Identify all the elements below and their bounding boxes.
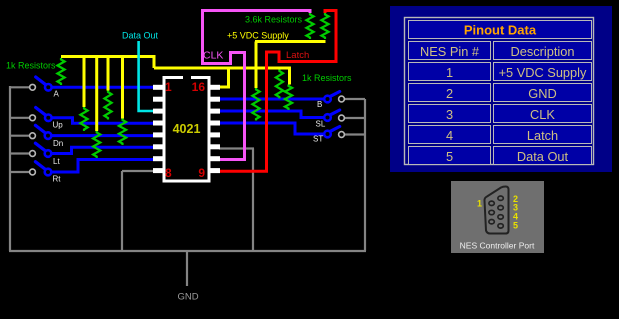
svg-text:NES Controller Port: NES Controller Port — [460, 241, 535, 251]
svg-text:B: B — [317, 100, 322, 109]
svg-text:Latch: Latch — [286, 50, 309, 61]
svg-text:NES Pin #: NES Pin # — [420, 44, 480, 59]
svg-text:Rt: Rt — [53, 175, 62, 184]
svg-text:3: 3 — [446, 107, 453, 122]
svg-text:Dn: Dn — [53, 139, 63, 148]
svg-text:ST: ST — [313, 135, 323, 144]
svg-text:Up: Up — [53, 121, 64, 130]
svg-text:8: 8 — [165, 166, 172, 180]
svg-text:3.6k Resistors: 3.6k Resistors — [245, 15, 303, 25]
svg-text:GND: GND — [178, 292, 199, 303]
svg-text:+5 VDC Supply: +5 VDC Supply — [227, 31, 289, 41]
svg-text:SL: SL — [316, 120, 326, 129]
svg-text:Data Out: Data Out — [517, 149, 569, 164]
svg-text:4: 4 — [446, 128, 453, 143]
svg-text:2: 2 — [446, 86, 453, 101]
svg-text:+5 VDC Supply: +5 VDC Supply — [499, 65, 587, 80]
svg-text:A: A — [54, 90, 60, 99]
svg-text:9: 9 — [198, 166, 205, 180]
svg-text:Data Out: Data Out — [122, 31, 159, 41]
svg-text:Pinout Data: Pinout Data — [464, 23, 537, 38]
svg-text:CLK: CLK — [530, 107, 555, 122]
svg-text:Description: Description — [510, 44, 574, 59]
svg-text:1: 1 — [477, 199, 482, 209]
svg-text:Latch: Latch — [527, 128, 558, 143]
svg-text:5: 5 — [513, 221, 518, 231]
svg-text:4021: 4021 — [173, 122, 201, 136]
svg-text:CLK: CLK — [203, 50, 223, 62]
svg-text:16: 16 — [192, 80, 206, 94]
svg-text:5: 5 — [446, 149, 453, 164]
svg-text:1k Resistors: 1k Resistors — [6, 61, 56, 71]
svg-text:1k Resistors: 1k Resistors — [302, 73, 352, 83]
svg-text:Lt: Lt — [53, 157, 60, 166]
svg-text:1: 1 — [446, 65, 453, 80]
svg-text:GND: GND — [528, 86, 556, 101]
svg-text:1: 1 — [165, 80, 172, 94]
